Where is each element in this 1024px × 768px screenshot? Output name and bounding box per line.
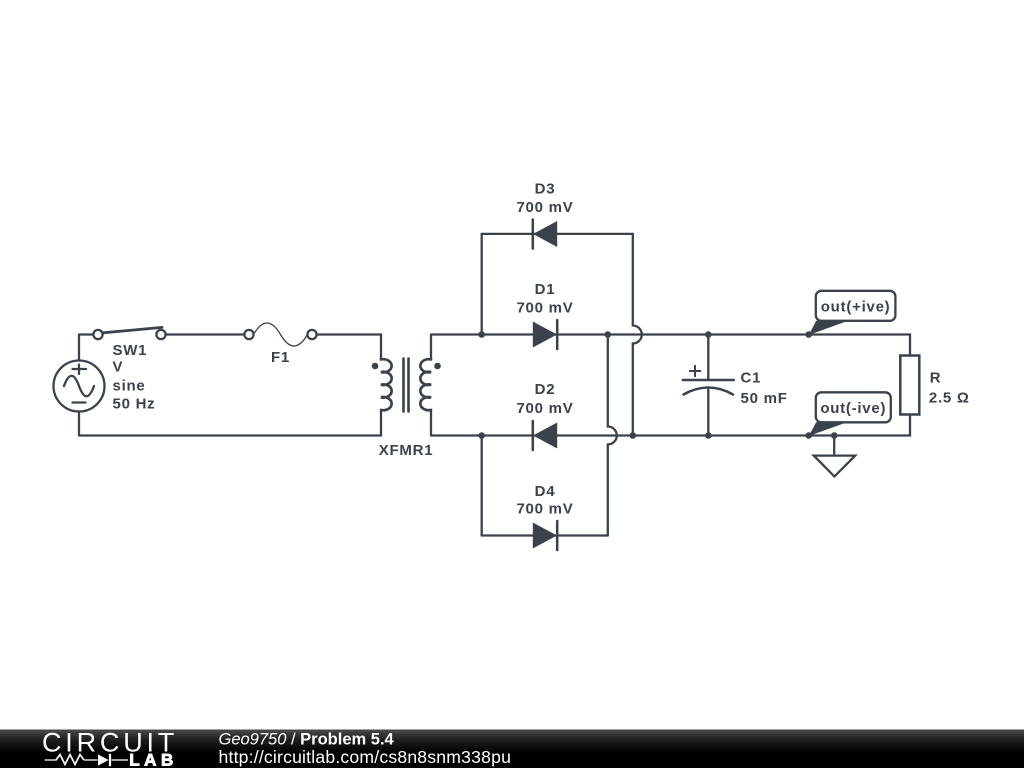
svg-text:700 mV: 700 mV	[516, 300, 573, 317]
svg-text:50 mF: 50 mF	[741, 390, 788, 407]
svg-text:R: R	[930, 370, 942, 387]
svg-text:F1: F1	[271, 349, 290, 366]
diode D2	[533, 421, 557, 450]
junction: rail A / top wire	[605, 331, 612, 338]
wire: right rail A with hop over bottom wire	[608, 335, 617, 536]
logo schematic: resistor zigzag	[56, 755, 84, 765]
svg-text:http://circuitlab.com/cs8n8snm: http://circuitlab.com/cs8n8snm338pu	[219, 747, 512, 767]
wire: secondary top lead	[430, 335, 432, 360]
svg-text:2.5 Ω: 2.5 Ω	[929, 390, 970, 407]
wire bottom: source to primary	[79, 434, 381, 436]
wire: F1 to transformer primary	[317, 335, 382, 360]
svg-text:50 Hz: 50 Hz	[113, 396, 156, 413]
flag out(+ive)	[809, 291, 896, 335]
junction: out(-ive) anchor	[805, 432, 812, 439]
wire top rail: secondary to R corner	[431, 335, 910, 356]
logo schematic: wire	[45, 759, 128, 761]
flag out(-ive)	[809, 392, 891, 436]
junction: rail B / bottom wire	[630, 432, 637, 439]
svg-text:700 mV: 700 mV	[516, 400, 573, 417]
wire: D3 row	[482, 233, 633, 235]
svg-text:out(-ive): out(-ive)	[820, 400, 886, 417]
svg-text:700 mV: 700 mV	[516, 501, 573, 518]
svg-text:C1: C1	[741, 370, 762, 387]
junction: out(+ive) anchor	[805, 331, 812, 338]
diode D4	[533, 521, 557, 550]
svg-text:D2: D2	[535, 381, 556, 398]
wire: D4 row	[482, 534, 608, 536]
diode D1	[533, 320, 557, 349]
wire: lower-left bridge rail	[481, 436, 483, 536]
svg-text:Geo9750 / Problem 5.4: Geo9750 / Problem 5.4	[219, 731, 395, 749]
footer bar	[0, 730, 1024, 768]
svg-text:D4: D4	[535, 483, 556, 500]
capacitor C1	[683, 335, 734, 436]
wire: primary bottom lead	[380, 411, 382, 436]
svg-text:SW1: SW1	[113, 342, 148, 359]
junction: C1 top	[705, 331, 712, 338]
svg-text:V: V	[113, 359, 124, 376]
wire source bottom lead	[78, 412, 80, 436]
switch SW1	[93, 327, 165, 339]
svg-text:LAB: LAB	[129, 751, 178, 768]
ground	[814, 436, 855, 477]
junction: left rail / top wire	[478, 331, 485, 338]
junction: left rail / bottom wire	[478, 432, 485, 439]
logo schematic: diode	[98, 754, 110, 766]
junction: ground anchor	[831, 432, 838, 439]
wire source top lead	[78, 335, 80, 361]
voltage source V	[54, 361, 105, 412]
wire: secondary bottom lead	[430, 411, 432, 436]
svg-text:700 mV: 700 mV	[516, 199, 573, 216]
svg-text:XFMR1: XFMR1	[379, 442, 434, 459]
svg-text:D1: D1	[535, 281, 556, 298]
wire bottom rail: secondary to R corner	[431, 415, 910, 436]
svg-text:D3: D3	[535, 181, 556, 198]
wire top: source to SW1	[79, 333, 93, 335]
fuse F1	[244, 323, 316, 346]
resistor R	[900, 356, 919, 415]
transformer XFMR1	[372, 359, 441, 412]
svg-text:sine: sine	[113, 378, 146, 395]
svg-text:out(+ive): out(+ive)	[821, 299, 891, 316]
wire: upper-left bridge rail	[481, 234, 483, 335]
wire: SW1 to F1	[166, 333, 245, 335]
junction: C1 bottom	[705, 432, 712, 439]
diode D3	[533, 220, 557, 249]
wire: right rail B with hop over top wire	[633, 234, 642, 436]
